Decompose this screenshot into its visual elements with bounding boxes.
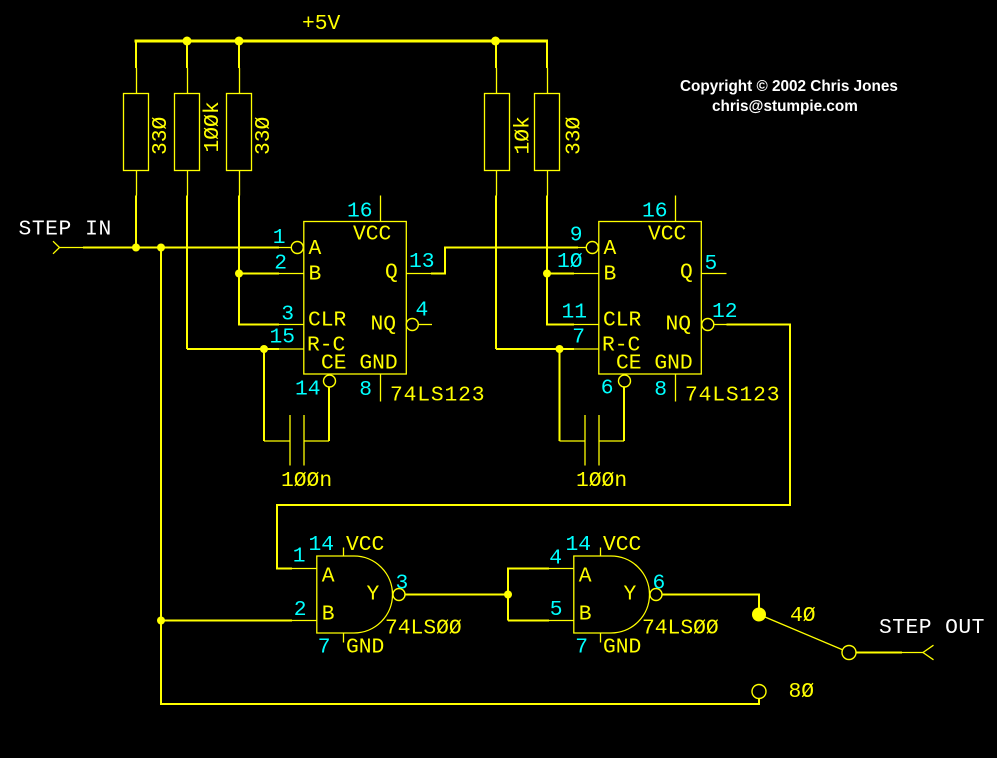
pin 9 bubble U2 A — [570, 224, 599, 254]
svg-text:11: 11 — [561, 301, 587, 325]
pin 7 stub U4 GND — [575, 633, 600, 660]
svg-text:+5V: +5V — [302, 12, 341, 36]
pin 7 stub U3 GND — [318, 633, 344, 660]
svg-text:B: B — [309, 263, 322, 287]
op-amp U2 74LS123 body — [599, 222, 781, 408]
svg-text:6: 6 — [601, 377, 614, 401]
svg-text:33Ø: 33Ø — [563, 116, 587, 155]
wire NAND1 B input — [161, 620, 317, 622]
wire STEP OUT — [856, 652, 923, 654]
wire rail drop to R1 — [135, 40, 138, 93]
svg-text:7: 7 — [572, 326, 585, 350]
svg-text:VCC: VCC — [353, 223, 391, 247]
switch SW1 contact 40 — [752, 604, 816, 628]
svg-text:1: 1 — [273, 226, 286, 250]
resistor R1 (330) — [124, 94, 174, 171]
svg-text:CLR: CLR — [308, 309, 347, 333]
wire +5V rail — [135, 40, 549, 43]
svg-text:14: 14 — [295, 378, 321, 402]
svg-text:8Ø: 8Ø — [789, 680, 815, 704]
svg-text:Q: Q — [680, 261, 693, 285]
wire R3 bottom down to B junction — [238, 171, 241, 274]
svg-text:2: 2 — [294, 598, 307, 622]
svg-text:NQ: NQ — [666, 313, 692, 337]
svg-text:A: A — [579, 565, 592, 589]
junction U3 output split — [504, 591, 512, 599]
pin 5 wire U2 Q stub — [701, 252, 726, 276]
svg-text:2: 2 — [274, 252, 287, 276]
switch SW1 contact 80 — [752, 680, 814, 704]
junction R3 B — [235, 270, 243, 278]
wire U2 NQ to NAND1 A — [276, 324, 791, 569]
svg-text:33Ø: 33Ø — [149, 116, 173, 155]
svg-text:14: 14 — [309, 533, 335, 557]
svg-text:5: 5 — [705, 252, 718, 276]
svg-text:9: 9 — [570, 224, 583, 248]
pin 7 wire U2 R-C — [496, 326, 599, 350]
svg-text:B: B — [604, 263, 617, 287]
svg-text:13: 13 — [409, 250, 435, 274]
svg-text:4: 4 — [416, 299, 429, 323]
svg-text:16: 16 — [347, 200, 373, 224]
svg-text:VCC: VCC — [603, 533, 641, 557]
wire rail drop to R3 — [238, 42, 241, 94]
wire rail drop to R4 — [495, 42, 498, 94]
pin 15 wire U1 R-C — [187, 326, 304, 350]
pin 1 bubble U1 A — [273, 226, 304, 254]
svg-text:STEP OUT: STEP OUT — [879, 616, 985, 640]
svg-text:B: B — [322, 603, 335, 627]
node +5V label — [302, 12, 341, 36]
node STEP OUT label — [879, 616, 985, 640]
svg-text:A: A — [604, 237, 617, 261]
svg-text:VCC: VCC — [648, 223, 686, 247]
pin 8 wire U2 GND — [654, 374, 675, 402]
connector STEP IN — [53, 241, 83, 254]
svg-text:Copyright © 2002 Chris Jones: Copyright © 2002 Chris Jones — [680, 78, 898, 95]
pin 11 wire U2 CLR — [547, 274, 599, 325]
wire bottom bus to 80 contact — [160, 699, 759, 705]
wire STEP IN net to IC1 pin 1 — [83, 247, 291, 249]
switch SW1 lever — [759, 615, 849, 653]
wire R5 bottom down to IC2 B junction — [546, 171, 549, 274]
svg-text:14: 14 — [566, 533, 592, 557]
svg-text:VCC: VCC — [346, 533, 384, 557]
svg-text:A: A — [309, 237, 322, 261]
pin 3 bubble U3 Y — [393, 572, 408, 601]
wire rail drop to R2 — [186, 42, 189, 94]
resistor R3 (330) — [227, 94, 277, 171]
pin 3 wire U1 CLR — [239, 274, 304, 327]
node copyright text — [680, 78, 898, 115]
pin 13 wire U1 Q to U2 pin 9 — [406, 248, 586, 275]
pin 14 stub U4 VCC — [566, 533, 601, 557]
svg-text:12: 12 — [712, 300, 738, 324]
svg-text:16: 16 — [642, 200, 668, 224]
svg-text:A: A — [322, 565, 335, 589]
svg-text:8: 8 — [359, 378, 372, 402]
svg-text:15: 15 — [269, 326, 295, 350]
svg-text:STEP IN: STEP IN — [19, 218, 112, 242]
svg-text:33Ø: 33Ø — [252, 116, 276, 155]
op-amp U1 74LS123 body — [304, 222, 486, 408]
pin 8 wire U1 GND — [359, 374, 380, 402]
svg-text:1ØØn: 1ØØn — [281, 469, 332, 493]
capacitor C2 (100n) — [560, 349, 628, 493]
svg-text:6: 6 — [653, 572, 666, 596]
pin 14 bubble U1 CE — [295, 375, 336, 402]
svg-text:4Ø: 4Ø — [790, 604, 816, 628]
svg-text:74LS123: 74LS123 — [390, 384, 485, 408]
wire R1 bottom to STEP IN net — [135, 171, 138, 248]
pin 4 bubble U1 NQ stub — [406, 299, 432, 331]
junction U2 R-C cap branch — [556, 345, 564, 353]
pin 12 bubble U2 NQ — [702, 300, 738, 331]
wire R2 bottom down to R-C row — [186, 171, 189, 350]
svg-text:7: 7 — [575, 636, 588, 660]
pin 16 wire U2 VCC — [642, 196, 676, 224]
switch SW1 pole — [842, 646, 856, 660]
svg-text:1ØØk: 1ØØk — [201, 101, 225, 152]
wire U3 Y to U4 inputs — [405, 568, 574, 621]
pin 2 wire U1 B — [239, 252, 304, 276]
svg-text:GND: GND — [346, 636, 384, 660]
connector STEP OUT — [923, 645, 934, 660]
svg-text:NQ: NQ — [371, 313, 397, 337]
svg-text:1Ø: 1Ø — [557, 250, 583, 274]
svg-text:74LSØØ: 74LSØØ — [385, 617, 462, 641]
svg-text:Y: Y — [367, 583, 380, 607]
svg-text:chris@stumpie.com: chris@stumpie.com — [712, 98, 858, 115]
capacitor C1 (100n) — [264, 349, 332, 493]
svg-text:7: 7 — [318, 636, 331, 660]
pin 6 bubble U4 Y — [650, 572, 665, 601]
nand gate U3 74LS00 body — [317, 533, 462, 660]
junction R-C cap branch — [260, 345, 268, 353]
svg-text:B: B — [579, 603, 592, 627]
svg-text:3: 3 — [281, 303, 294, 327]
pin 4 label U4 A — [549, 547, 562, 571]
pin 5 label U4 B — [550, 598, 563, 622]
resistor R4 (10k) — [485, 94, 536, 171]
svg-text:74LS123: 74LS123 — [685, 384, 780, 408]
svg-text:8: 8 — [654, 378, 667, 402]
svg-text:1Øk: 1Øk — [512, 116, 536, 154]
node STEP IN label — [19, 218, 112, 242]
svg-text:CE GND: CE GND — [321, 352, 398, 376]
svg-text:1ØØn: 1ØØn — [576, 469, 627, 493]
svg-text:3: 3 — [396, 572, 409, 596]
svg-text:4: 4 — [549, 547, 562, 571]
svg-text:CE GND: CE GND — [616, 352, 693, 376]
junction rail-R3 — [235, 37, 244, 46]
pin 10 wire U2 B — [547, 250, 599, 274]
pin 16 wire U1 VCC — [347, 196, 381, 224]
svg-text:5: 5 — [550, 598, 563, 622]
pin 1 label U3 A — [293, 545, 306, 569]
svg-text:Q: Q — [385, 261, 398, 285]
junction rail-R2 — [183, 37, 192, 46]
junction NAND1 B branch — [157, 617, 165, 625]
nand gate U4 74LS00 body — [574, 533, 719, 660]
resistor R2 (100k) — [175, 94, 226, 171]
junction STEP IN feedback branch — [157, 244, 165, 252]
svg-text:74LSØØ: 74LSØØ — [642, 617, 719, 641]
junction rail-R4 — [491, 37, 500, 46]
wire long feedback vertical — [160, 248, 162, 705]
pin 2 label U3 B — [294, 598, 307, 622]
svg-text:Y: Y — [624, 583, 637, 607]
resistor R5 (330) — [535, 94, 587, 171]
svg-text:CLR: CLR — [603, 309, 642, 333]
junction R5 B — [543, 270, 551, 278]
junction STEP IN R1 — [132, 244, 140, 252]
wire rail drop to R5 — [546, 40, 549, 93]
wire U4 Y to switch — [662, 594, 759, 614]
svg-text:GND: GND — [603, 636, 641, 660]
wire R4 bottom down to IC2 R-C row — [495, 171, 498, 350]
svg-text:1: 1 — [293, 545, 306, 569]
pin 6 bubble U2 CE — [601, 375, 631, 401]
pin 14 stub U3 VCC — [309, 533, 344, 557]
